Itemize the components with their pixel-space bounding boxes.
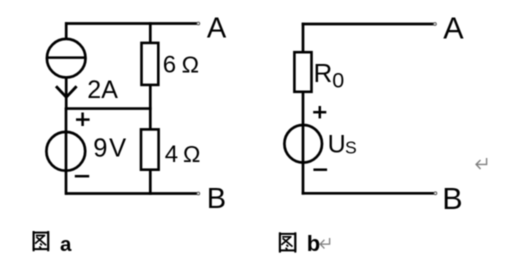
wire: right branch between resistors <box>149 85 152 131</box>
paragraph return mark (gray) right of circuit b <box>476 158 487 169</box>
resistor 4 ohm body <box>141 129 159 169</box>
terminal dot B (circuit b) <box>434 192 437 195</box>
svg-text:4: 4 <box>165 141 178 168</box>
svg-text:B: B <box>442 182 462 216</box>
arrowhead of 2A current direction <box>56 86 77 97</box>
svg-text:R: R <box>314 58 333 88</box>
voltage source 9V circle <box>46 132 85 171</box>
caption: glyph TU (Chinese for figure) of caption a <box>34 231 49 251</box>
caption: glyph TU (Chinese for figure) of caption b <box>280 232 295 252</box>
terminal dot A (circuit b) <box>434 23 437 26</box>
wire: circuit a bottom rail to terminal B <box>65 192 198 195</box>
line-break return mark (gray) after caption b <box>320 238 329 248</box>
wire: left branch through voltage source to bottom rail <box>65 108 68 195</box>
wire: circuit b branch top segment to R0 <box>302 23 305 53</box>
svg-text:b: b <box>307 231 320 256</box>
wire: right branch top segment to 6 ohm resistor <box>149 22 152 43</box>
minus sign of 9V source <box>75 175 89 178</box>
plus sign of Us source <box>313 106 326 118</box>
wire: circuit b top rail from R0 branch to terminal A <box>302 23 435 26</box>
terminal dot B (circuit a) <box>197 192 200 195</box>
voltage source Us circle <box>284 125 322 163</box>
minus sign of Us source <box>313 168 327 171</box>
wire: left branch top segment (top rail to current source) <box>65 22 68 39</box>
wire: circuit b branch through voltage source to bottom rail <box>302 92 305 195</box>
svg-text:U: U <box>328 130 346 158</box>
current source I=2A circle <box>47 39 86 78</box>
wire: right branch bottom segment to bottom rail <box>149 169 152 195</box>
terminal dot A (circuit a) <box>197 22 200 25</box>
svg-text:A: A <box>443 12 464 46</box>
svg-text:A: A <box>207 12 227 44</box>
svg-text:B: B <box>207 183 226 215</box>
wire: circuit a top rail from current source to terminal A <box>65 22 198 25</box>
svg-text:2A: 2A <box>87 76 118 104</box>
plus sign of 9V source <box>76 113 90 127</box>
wire: circuit b bottom rail to terminal B <box>302 192 435 195</box>
resistor R0 body <box>294 52 311 92</box>
svg-text:a: a <box>60 233 72 256</box>
svg-text:9V: 9V <box>93 135 128 163</box>
wire: circuit a middle rail <box>65 107 152 110</box>
resistor 6 ohm body <box>142 43 159 85</box>
svg-text:6: 6 <box>163 52 176 79</box>
svg-text:S: S <box>345 138 357 158</box>
svg-text:Ω: Ω <box>182 52 199 78</box>
wire: current source bottom to middle rail (arrow stem) <box>65 77 68 110</box>
svg-text:Ω: Ω <box>183 141 200 167</box>
current source horizontal bar <box>47 56 87 59</box>
svg-text:0: 0 <box>332 69 344 93</box>
